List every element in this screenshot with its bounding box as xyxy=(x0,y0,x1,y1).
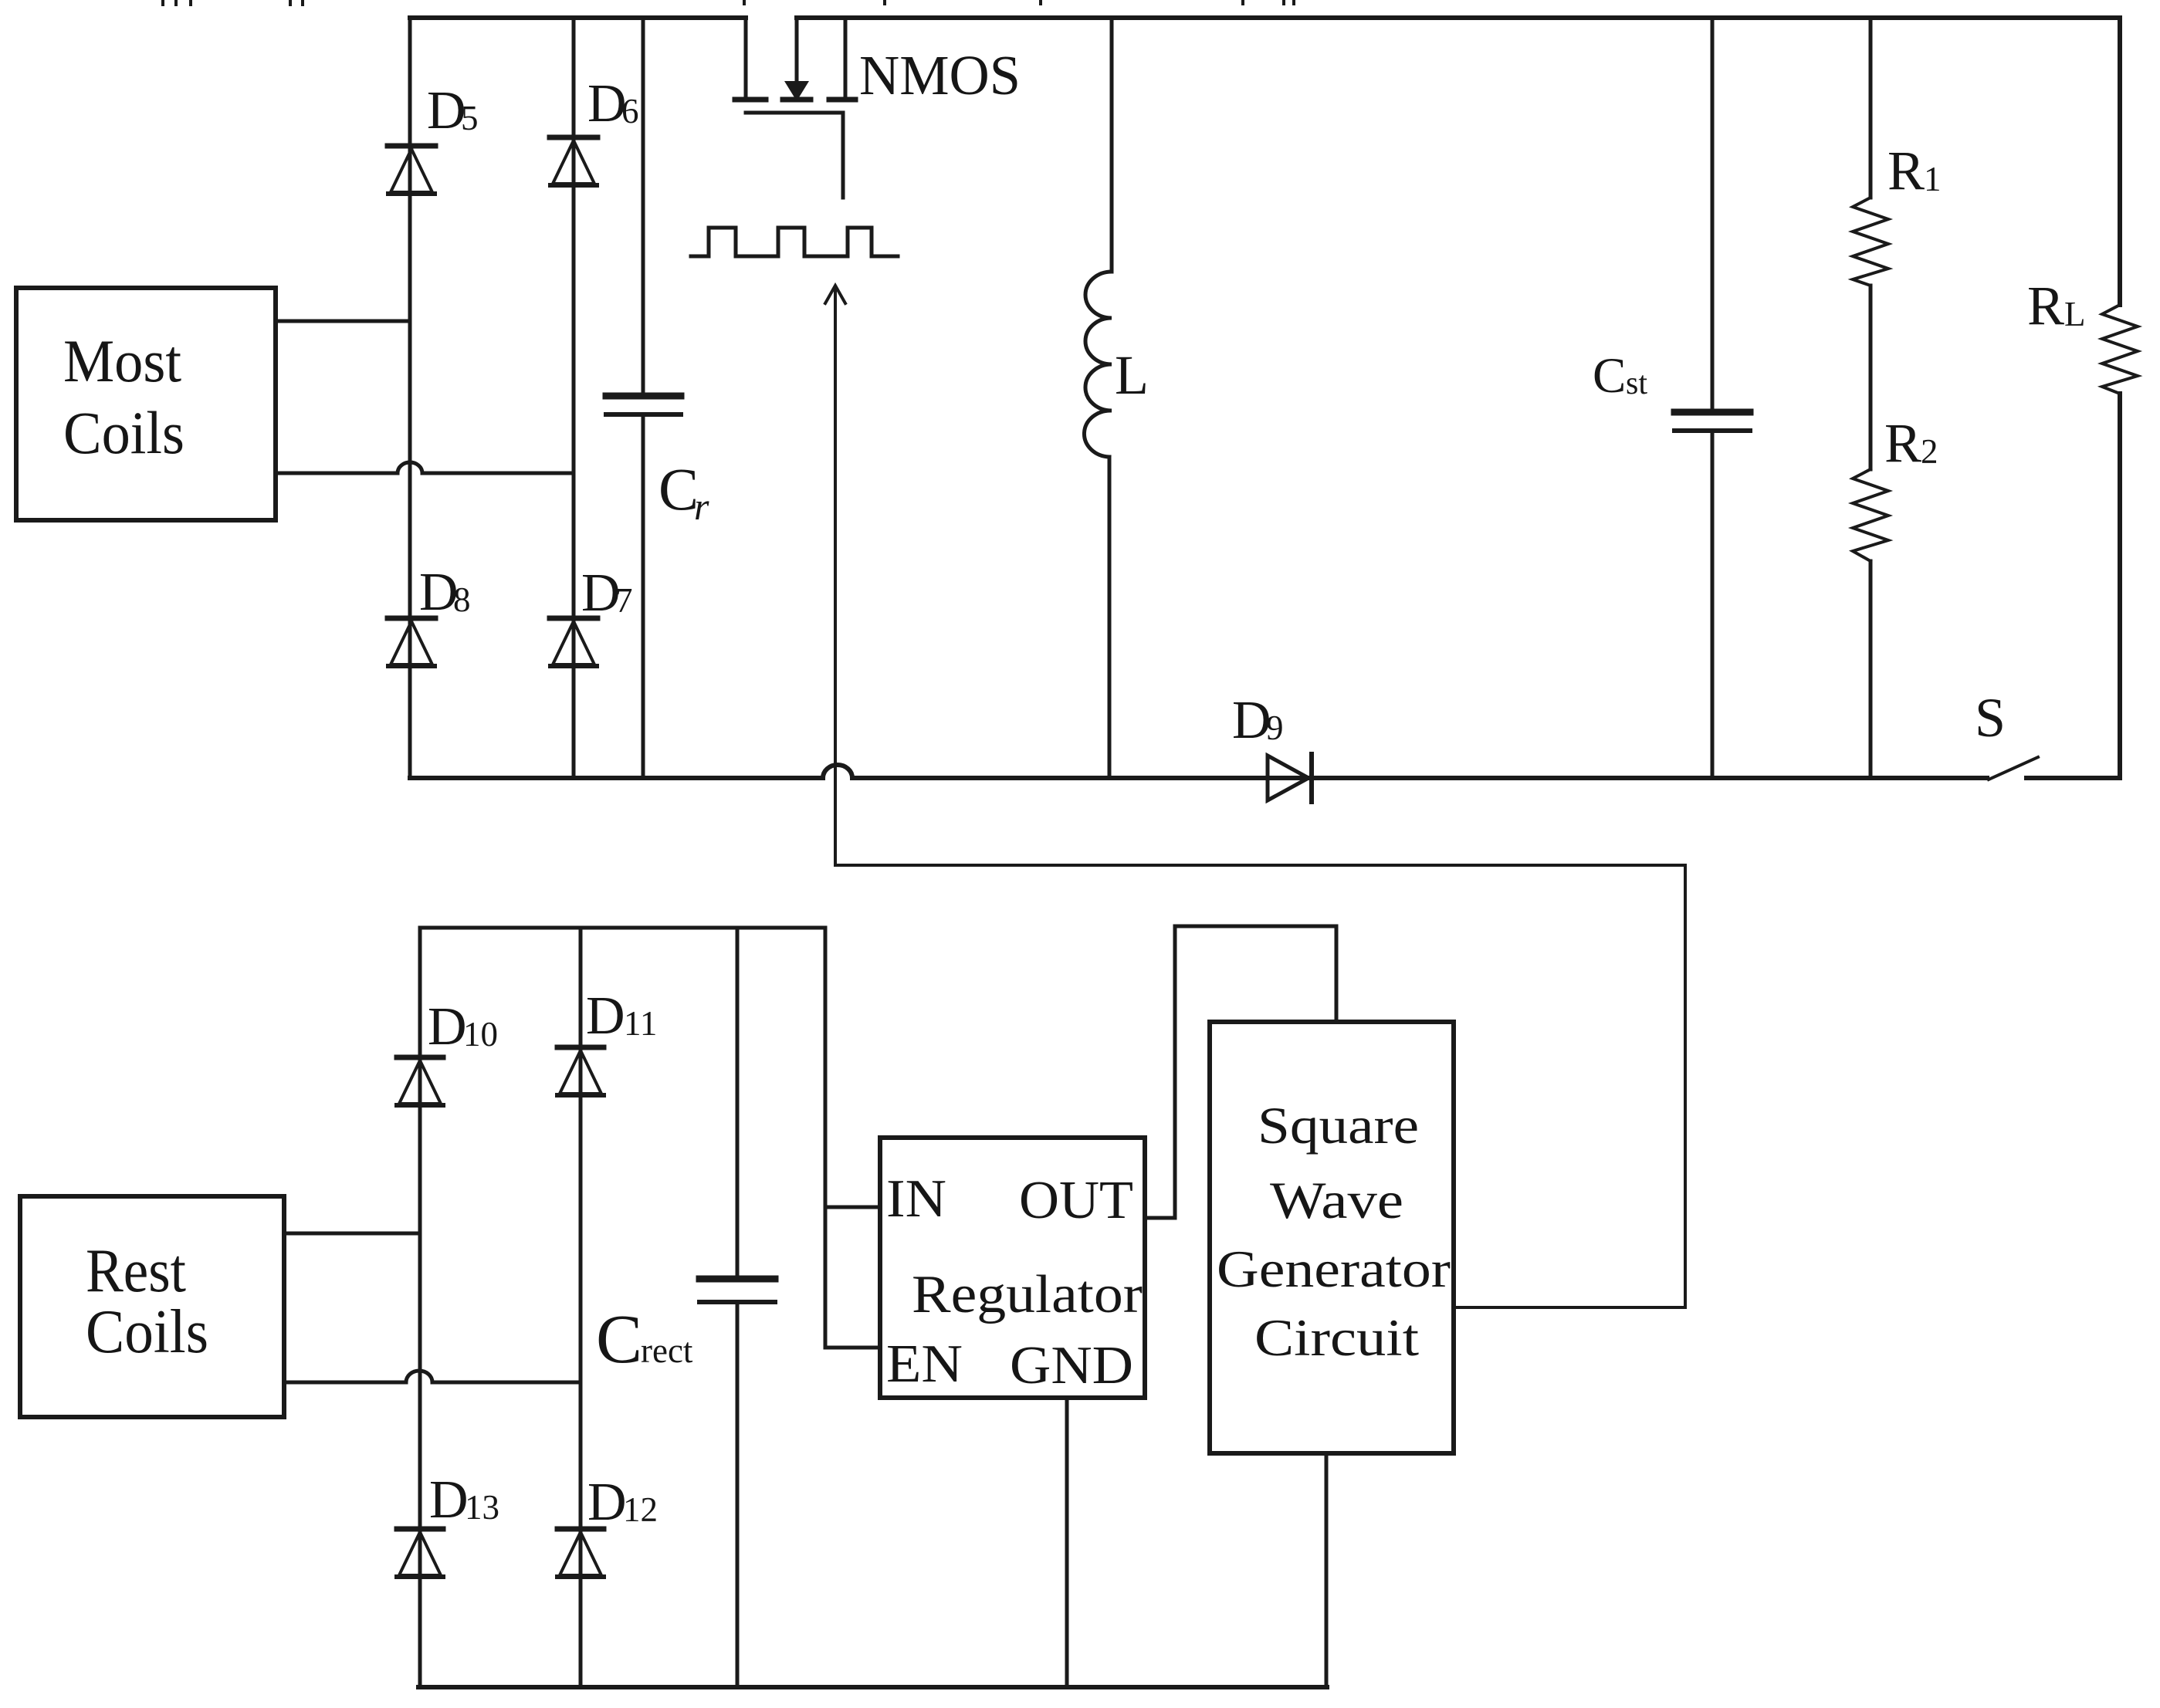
wire: Cr branch lower xyxy=(642,414,645,778)
label D11 xyxy=(586,986,657,1046)
wire: Cst branch upper xyxy=(1711,18,1715,412)
diode D11 xyxy=(557,1047,604,1095)
svg-text:GND: GND xyxy=(1010,1336,1133,1395)
diode D8 xyxy=(388,618,435,666)
svg-text:Circuit: Circuit xyxy=(1254,1308,1419,1367)
resistor R2 xyxy=(1853,469,1888,561)
diode D5 xyxy=(388,146,435,194)
label D5 xyxy=(427,81,479,140)
svg-text:6: 6 xyxy=(621,92,639,130)
svg-text:D: D xyxy=(428,997,467,1057)
wire: lower bottom bus xyxy=(418,1685,1327,1689)
svg-text:D: D xyxy=(587,74,627,134)
diode D6 xyxy=(550,137,598,185)
wire: regulator feed vertical xyxy=(824,928,828,1348)
diode D12 xyxy=(557,1529,604,1577)
svg-text:S: S xyxy=(1975,687,2006,749)
svg-text:8: 8 xyxy=(453,580,471,619)
diode D10 xyxy=(397,1057,443,1105)
wire: AC bottom with hop over left branch xyxy=(276,462,574,473)
svg-text:Regulator: Regulator xyxy=(912,1265,1143,1324)
wire: mid bridge branch (D6/D7) xyxy=(572,18,576,778)
gate drive arrow xyxy=(825,286,845,865)
svg-text:IN: IN xyxy=(886,1169,946,1229)
label D9 xyxy=(1232,691,1284,750)
label Cr xyxy=(658,455,709,528)
svg-text:C: C xyxy=(658,455,699,523)
resistor R1 xyxy=(1853,198,1888,286)
cropped text remnants at top edge xyxy=(163,0,1294,5)
label S xyxy=(1975,687,2006,749)
svg-text:D: D xyxy=(419,563,459,622)
svg-text:D: D xyxy=(587,1473,627,1532)
transistor NMOS xyxy=(735,18,855,198)
wire: R1/R2 branch top xyxy=(1869,18,1873,198)
svg-text:L: L xyxy=(1115,344,1149,406)
svg-text:OUT: OUT xyxy=(1019,1171,1133,1230)
svg-text:9: 9 xyxy=(1266,709,1284,747)
svg-text:D: D xyxy=(581,563,621,623)
wire: generator bottom lead xyxy=(1325,1453,1329,1687)
svg-text:Generator: Generator xyxy=(1217,1240,1451,1298)
wire: L branch upper xyxy=(1110,18,1114,272)
label Cst xyxy=(1593,348,1647,404)
svg-text:R: R xyxy=(1884,412,1921,474)
diode D13 xyxy=(397,1529,443,1577)
label D12 xyxy=(587,1473,658,1532)
wire: EN stub xyxy=(825,1346,880,1350)
wire: right edge branch top xyxy=(2118,18,2122,305)
wire: R1-R2 middle xyxy=(1869,286,1873,469)
wire: bottom bus of top circuit with hop xyxy=(410,765,1987,778)
svg-text:R: R xyxy=(1887,140,1925,201)
diode D9 xyxy=(1268,754,1312,802)
svg-text:D: D xyxy=(429,1470,469,1530)
label D7 xyxy=(581,563,633,623)
label D6 xyxy=(587,74,639,134)
wire: top bus left segment xyxy=(410,15,746,20)
svg-text:D: D xyxy=(1232,691,1271,750)
svg-text:2: 2 xyxy=(1921,432,1938,471)
wire: L branch lower xyxy=(1108,457,1112,778)
svg-text:Coils: Coils xyxy=(63,399,185,466)
svg-text:D: D xyxy=(586,986,625,1046)
capacitor Crect xyxy=(699,1279,775,1302)
svg-text:Square: Square xyxy=(1258,1096,1419,1155)
capacitor Cr xyxy=(606,396,681,414)
svg-text:11: 11 xyxy=(624,1004,657,1043)
label L xyxy=(1115,344,1149,406)
wire: gate feedback vertical xyxy=(1684,865,1687,1307)
wire: OUT stub and riser to generator xyxy=(1145,926,1336,1218)
svg-text:EN: EN xyxy=(886,1334,963,1394)
wire: Cst branch lower xyxy=(1711,431,1715,778)
label D10 xyxy=(428,997,498,1057)
svg-text:Coils: Coils xyxy=(86,1298,208,1366)
svg-text:Rest: Rest xyxy=(86,1237,186,1305)
wire: lower AC bottom with hop xyxy=(284,1371,581,1382)
wire: Cr branch upper xyxy=(642,18,645,396)
diode D7 xyxy=(550,618,598,666)
box Rest Coils xyxy=(20,1196,284,1417)
wire: AC top (Most Coils to bridge) xyxy=(276,320,410,323)
wire: lower top bus xyxy=(420,926,825,930)
label R2 xyxy=(1884,412,1938,474)
svg-text:st: st xyxy=(1626,366,1647,401)
svg-text:rect: rect xyxy=(641,1331,693,1370)
wire: lower AC top xyxy=(284,1232,420,1236)
wire: Crect branch upper xyxy=(736,928,740,1279)
label NMOS xyxy=(859,44,1021,107)
label Crect xyxy=(596,1301,693,1378)
svg-text:Wave: Wave xyxy=(1270,1171,1403,1229)
label D13 xyxy=(429,1470,499,1530)
wire: left bridge branch (D5/D8) xyxy=(408,18,412,778)
wire: right edge branch bottom xyxy=(2118,394,2122,778)
svg-text:NMOS: NMOS xyxy=(859,44,1021,107)
box Regulator xyxy=(880,1138,1145,1398)
svg-text:1: 1 xyxy=(1924,160,1942,198)
svg-text:L: L xyxy=(2064,295,2086,333)
wire: lower right branch (D11/D12) xyxy=(579,928,583,1687)
svg-text:C: C xyxy=(1593,348,1626,404)
wire: top bus right segment xyxy=(797,15,2120,20)
square wave symbol xyxy=(691,228,898,256)
box Square Wave Generator Circuit xyxy=(1210,1022,1454,1453)
box Most Coils xyxy=(16,288,276,520)
svg-text:Most: Most xyxy=(63,327,181,394)
label D8 xyxy=(419,563,471,622)
resistor RL xyxy=(2102,305,2138,394)
svg-text:13: 13 xyxy=(465,1488,499,1527)
wire: gate feedback horizontal xyxy=(835,864,1685,867)
label R1 xyxy=(1887,140,1942,201)
svg-text:r: r xyxy=(694,485,709,528)
wire: generator output to feedback xyxy=(1454,1306,1685,1309)
wire: IN stub xyxy=(825,1206,880,1209)
svg-text:C: C xyxy=(596,1301,642,1378)
svg-text:R: R xyxy=(2027,275,2064,337)
svg-text:D: D xyxy=(427,81,466,140)
svg-text:5: 5 xyxy=(461,99,479,137)
wire: GND lead xyxy=(1065,1398,1069,1687)
wire: R2 bottom xyxy=(1869,561,1873,778)
label RL xyxy=(2027,275,2086,337)
svg-text:12: 12 xyxy=(623,1490,658,1529)
wire: lower left branch (D10/D13) xyxy=(418,928,422,1687)
inductor L xyxy=(1084,272,1112,457)
svg-text:7: 7 xyxy=(615,581,633,620)
switch S blade xyxy=(1989,757,2038,780)
svg-text:10: 10 xyxy=(463,1015,498,1054)
capacitor Cst xyxy=(1674,412,1750,431)
wire: Crect branch lower xyxy=(736,1302,740,1687)
